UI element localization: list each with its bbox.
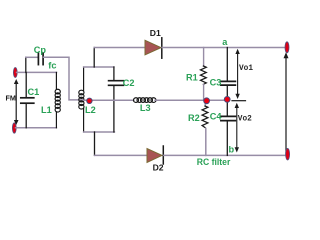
wire bottom rail of FM tank <box>16 127 57 129</box>
junction dot on L2 center tap <box>87 98 92 103</box>
svg-text:D2: D2 <box>153 162 164 172</box>
wire L3 to R divider <box>155 99 205 101</box>
capacitor Cp <box>38 53 43 64</box>
output terminal bottom <box>286 148 290 160</box>
svg-text:C4: C4 <box>210 112 223 122</box>
svg-text:L2: L2 <box>85 105 96 115</box>
svg-text:R2: R2 <box>188 113 200 123</box>
svg-text:FM: FM <box>6 94 16 103</box>
svg-text:L1: L1 <box>41 105 52 115</box>
Vo2 measurement arrow <box>235 103 239 153</box>
output arrow <box>284 52 289 154</box>
resistor R2 <box>202 100 208 127</box>
diode D2 <box>147 146 163 164</box>
junction dot R1-R2 <box>204 98 210 104</box>
inductor L1 <box>55 72 60 127</box>
wire top rail D1 to output <box>162 47 287 49</box>
resistor R1 <box>201 48 207 101</box>
wire center tap rail <box>84 99 134 101</box>
wire bottom rail to D2 <box>95 154 148 156</box>
wire secondary tank bottom <box>84 131 115 133</box>
junction dot C3-C4 <box>224 97 230 103</box>
inductor L2 <box>79 67 84 132</box>
wire top rail of FM tank <box>17 71 57 73</box>
wire bottom rail D2 to output <box>164 154 287 156</box>
svg-text:RC filter: RC filter <box>197 157 231 167</box>
svg-text:b: b <box>229 145 235 155</box>
wire D1 feed riser <box>93 48 95 68</box>
svg-text:D1: D1 <box>150 28 161 38</box>
wire R junction to C junction <box>207 99 227 101</box>
inductor L3 <box>134 98 157 103</box>
wire Cp branch riser <box>25 57 27 72</box>
output terminal top <box>285 42 289 53</box>
svg-text:L3: L3 <box>140 103 151 113</box>
capacitor C3 <box>221 48 236 100</box>
wire Cp right to secondary center tap <box>44 57 84 100</box>
svg-text:Vo1: Vo1 <box>239 65 253 73</box>
FM source arrow <box>14 79 19 125</box>
svg-text:fc: fc <box>48 61 56 71</box>
diode D1 <box>145 38 162 58</box>
svg-text:C3: C3 <box>210 78 222 88</box>
svg-text:Cp: Cp <box>34 45 47 55</box>
capacitor C4 <box>221 100 236 156</box>
svg-text:C2: C2 <box>123 78 135 88</box>
FM source terminal + <box>13 68 17 78</box>
capacitor C1 <box>21 72 34 127</box>
wire top rail to D1 <box>94 47 145 49</box>
tick between Vo1 and Vo2 <box>232 100 246 102</box>
svg-text:R1: R1 <box>186 73 198 83</box>
Vo1 measurement arrow <box>235 49 239 99</box>
FM source terminal - <box>12 123 16 133</box>
svg-text:a: a <box>222 37 228 47</box>
wire D2 feed dropper <box>94 132 96 155</box>
wire R2 bottom leg <box>205 129 207 156</box>
wire secondary tank top <box>84 66 114 68</box>
capacitor C2 <box>109 67 124 132</box>
svg-text:C1: C1 <box>28 87 40 97</box>
wire Cp left <box>26 56 38 58</box>
svg-text:Vo2: Vo2 <box>238 115 252 123</box>
